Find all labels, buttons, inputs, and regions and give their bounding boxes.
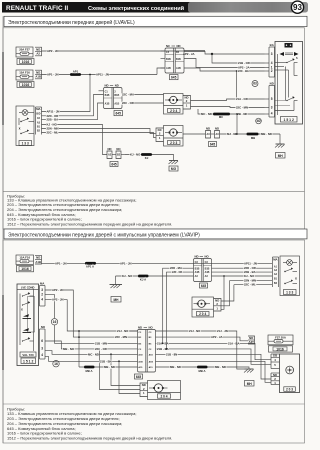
wire 1512 pin3b MC-ND [45,351,138,355]
svg-text:1016: 1016 [276,347,284,351]
wire 21B row to motor203 pin5 [156,349,271,364]
wire 645 A1B to pin2 [184,68,265,71]
svg-text:A1D: A1D [149,353,154,356]
branch up to pin4 row [236,114,238,134]
wire MC-ND row [198,109,265,114]
impulse row [280,52,285,56]
svg-text:VAL 720: VAL 720 [22,353,34,357]
svg-text:AP2 - JN: AP2 - JN [47,49,59,53]
contact lower [286,100,287,101]
svg-text:93: 93 [293,3,302,12]
connector block 645 mid [194,255,212,282]
section 1 title box [4,16,307,26]
svg-text:22C - BA: 22C - BA [238,69,249,73]
svg-text:AP2 - JA: AP2 - JA [238,66,250,70]
svg-text:MG: MG [171,167,177,171]
wire motor204 to pin3 22C-MN [191,107,265,108]
fuse box 1016 label [17,59,34,65]
wire 22D-OR into 645 [167,272,194,349]
svg-text:21J - NO: 21J - NO [117,329,129,333]
junction node AP2 [211,53,213,55]
svg-text:MB - NO: MB - NO [63,347,75,351]
svg-text:22C - ML: 22C - ML [244,283,256,287]
label R3 [209,142,217,147]
svg-text:MA: MA [273,257,277,261]
header bar black [2,2,192,13]
svg-text:63: 63 [253,82,257,86]
switch contact 2 [20,133,21,134]
internal wiring [277,54,279,115]
splice AP1 [70,73,81,76]
contact c [22,340,23,341]
svg-text:16: 16 [54,362,58,366]
svg-text:ND: ND [215,127,219,131]
wire drop from junction to row 63 [212,54,265,63]
svg-text:A1D: A1D [138,353,143,356]
svg-text:AP2 - JN: AP2 - JN [52,288,64,292]
svg-text:KJ - NO: KJ - NO [244,274,255,278]
svg-text:BA: BA [270,43,274,47]
wire 22D-MA into 645 [163,268,194,343]
svg-text:MB: MB [251,136,255,140]
connector upper of motor203 [271,354,280,369]
wire AP1 into block 645 [157,68,165,75]
connector ND/A2 (bottom F27) [248,336,255,344]
wire link 22C bus [236,71,238,99]
pin bracket BA upper [265,43,275,77]
svg-text:ND: ND [270,81,274,85]
page left border [2,16,4,443]
svg-text:3: 3 [41,347,43,351]
svg-text:1016: 1016 [22,60,30,64]
svg-text:MA: MA [36,107,40,111]
svg-text:AP2 - JN: AP2 - JN [52,298,64,302]
motor 203 driver (bottom right) [280,354,300,393]
svg-text:x: x [21,308,23,312]
window lifter switch module 1512 [275,42,303,125]
label R4 [110,162,118,167]
splice KJ (bottom) [138,275,149,278]
black connector icon [285,43,293,48]
svg-text:4: 4 [41,298,43,302]
block 645 label (bottom left) [135,374,143,379]
svg-text:ND: ND [206,127,210,131]
switch unit 133 (bottom right) [280,256,300,296]
svg-text:MA: MA [40,282,44,286]
block 645 mid label [200,283,208,288]
connector ND/A1B at F16 [35,70,42,79]
splice AP1 (bottom) [85,262,96,265]
svg-text:645: 645 [136,375,142,379]
fuse F16 15A (bottom) [16,255,34,265]
svg-text:B/D: B/D [36,113,40,116]
svg-text:AP1: AP1 [73,69,79,73]
svg-text:KJ: KJ [145,156,149,160]
svg-text:MC - ND: MC - ND [201,112,212,116]
svg-text:MB - ND: MB - ND [261,132,272,136]
svg-text:21B - BN: 21B - BN [100,359,112,363]
page number 93 [291,1,303,13]
block 645 lower label [114,111,123,116]
contact b [22,304,23,305]
svg-text:15A F16: 15A F16 [19,71,30,75]
connector lower of motor203 [271,373,280,385]
internal sub-box [28,297,35,333]
svg-text:MH: MH [247,382,253,386]
svg-text:A1B: A1B [105,102,110,105]
svg-text:MC: MC [219,115,223,119]
svg-text:1512 – Переключатель электрост: 1512 – Переключатель электростеклоподъем… [7,436,172,441]
svg-text:A2: A2 [36,52,40,56]
svg-text:MB A: MB A [198,369,205,373]
wire 645 B1B to pin1 [184,59,265,68]
bottom legend [7,407,172,441]
wire 22C-MA 645 to motor204 [122,94,164,96]
circled ref 63 [252,81,258,87]
connector bracket of 133 (bottom) [273,257,279,287]
wire 1512 pin4 AP2 [45,300,138,331]
svg-text:1 5 1 2: 1 5 1 2 [23,359,33,363]
svg-text:AP11 - JN: AP11 - JN [244,261,257,265]
svg-text:MB - ND: MB - ND [215,365,226,369]
connector ND/2 of motor204 mid [214,299,222,312]
svg-text:2: 2 [271,69,273,73]
wire AP2 junction to pin 3 [205,51,265,54]
svg-text:22C - ML: 22C - ML [47,131,59,135]
svg-text:40: 40 [256,119,260,123]
svg-text:3: 3 [271,106,273,110]
ground MH (bottom right) [244,369,254,386]
wire 21A row to motor203 pin4 [156,343,271,359]
svg-text:x: x [19,126,21,130]
svg-text:A1B: A1B [149,360,154,363]
connector pair R4 ND/NO [107,147,125,158]
wire 22C-ML row [234,284,272,286]
svg-text:21J - JN: 21J - JN [217,329,228,333]
svg-text:16: 16 [53,320,57,324]
svg-text:RENAULT TRAFIC II: RENAULT TRAFIC II [6,5,68,12]
svg-text:22C - OR: 22C - OR [122,101,134,105]
block 645 upper label [170,75,179,80]
svg-text:21J - NO: 21J - NO [189,329,201,333]
svg-text:21A - OR: 21A - OR [236,97,248,101]
svg-text:A1B: A1B [35,75,41,79]
wire AP2 row to fuse F27 [156,337,249,341]
wire 22C-OR 645 to motor204 [122,102,164,104]
svg-text:22C - MA: 22C - MA [122,93,134,97]
svg-text:Схемы электрических соединений: Схемы электрических соединений [88,5,185,12]
svg-text:ND: ND [105,84,109,88]
wire KJ-NO into 645 [116,275,194,277]
circled ref 16a [51,319,57,325]
svg-text:6: 6 [41,339,43,343]
motor 204 passenger (bottom middle) [148,381,181,400]
svg-text:AP1 - JN: AP1 - JN [47,73,59,77]
svg-text:3: 3 [41,288,43,292]
svg-text:AP2 - JA: AP2 - JA [211,335,223,339]
svg-text:2 0 4: 2 0 4 [160,394,167,398]
wire AP2 fuse to junction [42,50,206,52]
wire MB row with splices [220,133,281,135]
svg-text:1016: 1016 [22,83,30,87]
fuse box 1016 label (bottom left) [17,266,34,272]
svg-text:645: 645 [171,76,177,80]
contact upper [286,62,287,63]
svg-text:4: 4 [41,353,43,357]
ground KJ (bottom) [110,276,123,302]
svg-text:20A F27: 20A F27 [19,48,30,52]
legend 2 divider [3,403,305,405]
svg-text:B1B: B1B [105,94,110,97]
connector ND/2/1 of motor204 (bottom) [140,383,148,397]
svg-text:1 5 1 2: 1 5 1 2 [284,118,294,122]
connector block 645 lower-left [99,84,123,109]
svg-text:B1B: B1B [166,58,171,61]
label 1512 [281,117,298,123]
svg-text:AP1 A: AP1 A [86,264,94,268]
svg-text:A1B: A1B [195,271,200,274]
svg-text:2 0 4: 2 0 4 [199,312,206,316]
wire AP1 [42,74,158,76]
wire AP1 row to switch 133 [42,262,273,264]
wire 1512 pin4b [45,356,138,361]
svg-text:21A - BA: 21A - BA [228,341,240,345]
wire to motor204 pinND [111,354,140,385]
motor 204 mid (passenger) [192,297,214,317]
circled ref 16b [53,361,59,367]
svg-text:1016: 1016 [21,267,29,271]
fuse box 1016 label (bottom right) [269,346,293,352]
switch contact 1 [20,121,21,122]
svg-text:2 0 3: 2 0 3 [286,387,293,391]
svg-text:MB A: MB A [85,369,92,373]
connector block 645 upper (R3) [161,44,185,73]
svg-text:645: 645 [116,112,122,116]
junction dots motor feeds [99,348,101,350]
svg-text:ND: ND [107,147,111,151]
fuse F27 20A (bottom right) [268,335,293,345]
svg-text:22B - BA: 22B - BA [47,118,59,122]
bus verticals [285,67,287,98]
wire motor204mid pin1 up to KJ row [221,276,224,309]
svg-text:A1B: A1B [138,360,143,363]
svg-text:x: x [295,276,297,280]
svg-text:22C - MN: 22C - MN [236,106,248,110]
wire 133 22B-BA [42,103,104,120]
pin bracket of 1512 lower [40,325,46,359]
svg-text:15A F16: 15A F16 [19,255,30,259]
wire motor204mid pin2 up to 22N row [221,281,230,306]
connector NC/2/1 of motor 203 [156,128,164,142]
wire to motor204 pin1 [119,361,140,393]
svg-text:B1B: B1B [195,267,200,270]
wire 133 22N-MN [42,129,156,134]
svg-text:3: 3 [271,52,273,56]
svg-text:MH: MH [278,154,284,158]
svg-text:KJ A: KJ A [140,277,146,281]
svg-text:MJ - ND: MJ - ND [227,132,237,136]
svg-text:21B - 8N: 21B - 8N [166,352,177,356]
svg-text:ND: ND [195,255,199,259]
svg-text:NC: NC [166,44,170,48]
svg-text:A1B: A1B [166,67,171,70]
internal bus [33,289,35,351]
circled ref 40 [256,118,262,124]
svg-text:2 0 3: 2 0 3 [170,141,177,145]
svg-text:B1B: B1B [176,58,181,61]
contact a [22,295,23,296]
svg-text:22D - MA: 22D - MA [170,266,182,270]
svg-text:MB - ND: MB - ND [237,112,248,116]
wire 22N-MN row [230,280,273,282]
svg-text:22C - MN: 22C - MN [115,335,127,339]
svg-text:B1B: B1B [114,94,119,97]
connector bracket of 133 [36,107,42,135]
svg-text:2: 2 [41,293,43,297]
wire 1512 pin3 AP2 [45,290,138,337]
label 133 (bottom) [284,290,297,295]
svg-text:A1B: A1B [114,102,119,105]
fuse box 1016 label [17,82,34,88]
svg-text:2 0 4: 2 0 4 [170,109,177,113]
top legend [7,193,172,226]
connector ND/A2 at F27 [35,47,42,56]
svg-text:AP11 - JN: AP11 - JN [96,73,109,77]
wire MB row with splice [79,366,138,368]
section 1 frame [3,28,305,229]
svg-text:A2T: A2T [249,340,255,344]
svg-text:Электростеклоподъемники передн: Электростеклоподъемники передних дверей … [8,19,135,26]
svg-text:21B - MN: 21B - MN [95,341,107,345]
lamp [22,110,28,116]
section 2 frame [3,240,305,443]
svg-text:MH: MH [114,298,120,302]
svg-text:ND: ND [115,84,119,88]
motor 204 (passenger) [164,94,184,115]
wire motor203 right to connector pair [183,133,206,135]
svg-text:AP2 - JA: AP2 - JA [183,52,195,56]
svg-text:ND: ND [138,326,142,330]
svg-text:A1B: A1B [35,260,41,264]
fuse F27 20A [16,47,33,57]
fuse F16 15A [16,70,33,80]
wire MB row right with splice [156,367,250,369]
label 1512 [21,358,36,364]
ground MG (KJ) [125,153,178,171]
svg-text:KJ - NO: KJ - NO [130,153,141,157]
wire 21J row [156,331,245,369]
connector pair ND/ND A3 [206,127,220,138]
svg-text:MB - ND: MB - ND [170,365,181,369]
svg-text:4: 4 [271,61,273,65]
svg-text:22C - OR: 22C - OR [95,347,107,351]
label VAL [20,352,36,357]
svg-text:1 3 3: 1 3 3 [286,290,293,294]
svg-text:B1B: B1B [205,267,210,270]
svg-text:Электростеклоподъемники передн: Электростеклоподъемники передних дверей … [8,232,200,239]
svg-text:ND: ND [177,44,181,48]
svg-text:645: 645 [201,284,207,288]
svg-text:A1B: A1B [176,67,181,70]
wire 133 22D-OR [42,95,104,116]
wire AP2 thick out of 645 [184,50,205,52]
wire 1512 pin2 via ref [45,295,55,319]
wire 133 KJ-NO [42,125,108,155]
connector ND/A1B (bottom F16) [35,255,42,264]
wire motor204mid pinND up to 22C row [221,285,234,301]
svg-text:AP1 - JN: AP1 - JN [120,261,132,265]
wire motor204 to pin5 21A-OR [191,99,265,101]
pin bracket of 1512 upper [40,282,46,306]
svg-text:F27 20A: F27 20A [275,336,286,340]
legend 1 divider [3,190,305,192]
wire 1512 pin6 [45,341,138,349]
wire row to motor203 pin2 [156,354,271,379]
pin bracket ND lower [265,81,275,117]
wire row to motor203 pin1 [156,361,271,382]
svg-text:4: 4 [271,112,273,116]
ground MH top [275,134,285,158]
svg-text:A1B: A1B [205,271,210,274]
wire drop to MB row [78,331,80,367]
svg-text:645: 645 [111,162,117,166]
switch unit 133 [16,106,34,146]
wire 133 AP11 lamp [42,75,91,112]
splice MC [213,113,230,116]
wire 133 22C-ML [42,133,156,138]
svg-text:LVE CDND: LVE CDND [21,285,35,289]
svg-text:5: 5 [271,97,273,101]
svg-text:22D - OR: 22D - OR [172,271,182,274]
svg-text:645: 645 [210,142,216,146]
svg-text:MB - ND: MB - ND [104,365,115,369]
wires 645 to 133 right [212,267,273,269]
motor 203 (driver) [164,126,184,147]
switch module 1512 (tall, left) [17,284,39,366]
wire to motor204 pin2 [100,349,141,390]
svg-text:KJ - NO: KJ - NO [122,274,133,278]
label 133 [19,141,32,146]
connector ND/2/1 of motor 204 [183,95,191,109]
svg-text:1512 – Переключатель электрост: 1512 – Переключатель электростеклоподъем… [7,222,172,227]
svg-text:21B - OR: 21B - OR [238,61,250,65]
svg-text:1 3 3: 1 3 3 [22,141,29,145]
connector block 645 left (bottom) [138,326,156,372]
svg-text:MC - ND: MC - ND [88,352,99,356]
svg-text:GB: GB [273,354,277,358]
impulse arrows [23,314,29,317]
svg-text:AP1 - JN: AP1 - JN [55,261,67,265]
splice MB [247,133,259,136]
section 2 title box [4,229,307,239]
